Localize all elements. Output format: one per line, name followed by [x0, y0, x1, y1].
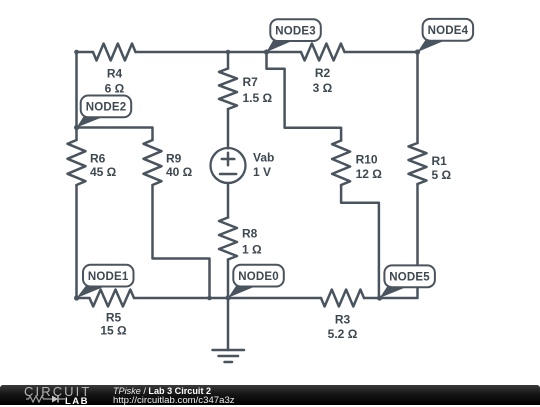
- resistor R2: [301, 44, 345, 96]
- resistor R4: [93, 44, 136, 96]
- wire R9 bottom jog: [153, 185, 210, 298]
- svg-text:NODE2: NODE2: [86, 102, 127, 114]
- svg-text:R2: R2: [315, 66, 331, 80]
- svg-text:1 V: 1 V: [253, 165, 271, 179]
- wire top rail right: [345, 51, 418, 54]
- resistor R8: [219, 218, 262, 260]
- wire bottom rail right: [364, 297, 380, 300]
- svg-text:NODE4: NODE4: [428, 25, 469, 37]
- svg-text:Vab: Vab: [253, 151, 274, 165]
- node junction R9 tap bottom: [207, 296, 212, 301]
- wire R8 to NODE0: [227, 260, 230, 299]
- svg-text:NODE3: NODE3: [275, 25, 316, 37]
- resistor R5: [90, 290, 135, 338]
- svg-text:R6: R6: [90, 152, 106, 166]
- wire Vab to R8: [227, 183, 230, 218]
- footer title text: [113, 386, 211, 396]
- logo resistor-diode glyph: [25, 385, 95, 405]
- wire left rail upper: [75, 52, 78, 140]
- svg-text:5.2 Ω: 5.2 Ω: [328, 327, 358, 341]
- svg-text:3 Ω: 3 Ω: [313, 81, 333, 95]
- wire right rail upper: [416, 52, 419, 143]
- svg-text:R9: R9: [166, 152, 182, 166]
- node label NODE2: [74, 96, 131, 131]
- wire bottom rail middle: [134, 297, 321, 300]
- wire R7 to Vab: [227, 109, 230, 148]
- resistor R1: [409, 143, 452, 184]
- svg-text:5 Ω: 5 Ω: [432, 168, 452, 182]
- svg-text:R3: R3: [335, 313, 351, 327]
- voltage source V1 Vab: [211, 148, 275, 183]
- wire NODE2 to R9: [77, 128, 153, 141]
- wire left rail lower: [75, 185, 78, 298]
- svg-text:R1: R1: [432, 154, 448, 168]
- svg-text:NODE5: NODE5: [389, 272, 430, 284]
- svg-text:R7: R7: [243, 75, 259, 89]
- node label NODE5: [377, 265, 435, 300]
- svg-text:45 Ω: 45 Ω: [90, 165, 117, 179]
- wire R7 branch top lead: [227, 52, 230, 69]
- svg-text:12 Ω: 12 Ω: [356, 167, 383, 181]
- svg-text:1.5 Ω: 1.5 Ω: [243, 91, 273, 105]
- svg-text:40 Ω: 40 Ω: [166, 165, 193, 179]
- node label NODE1: [74, 265, 134, 301]
- wire bottom rail left lead: [77, 297, 90, 300]
- resistor R10: [332, 141, 382, 186]
- node junction top-left corner: [74, 50, 79, 55]
- svg-text:R5: R5: [106, 311, 122, 325]
- svg-text:15 Ω: 15 Ω: [100, 324, 127, 338]
- resistor R6: [68, 140, 117, 185]
- wire top rail left lead: [77, 51, 94, 54]
- svg-text:6 Ω: 6 Ω: [105, 82, 125, 96]
- svg-text:R10: R10: [356, 153, 378, 167]
- svg-text:R8: R8: [242, 227, 258, 241]
- wire top rail middle: [136, 51, 302, 54]
- wire NODE0 to ground: [227, 298, 230, 350]
- node label NODE4: [415, 19, 473, 55]
- wire NODE3 jog to R10: [267, 52, 342, 141]
- resistor R3: [321, 290, 364, 341]
- resistor R7: [219, 69, 273, 110]
- node label NODE0: [226, 265, 284, 301]
- svg-text:NODE0: NODE0: [238, 271, 279, 283]
- wire right rail lower jog: [380, 184, 418, 298]
- resistor R9: [144, 140, 193, 185]
- footer url: [113, 395, 235, 406]
- CircuitLab logo: [24, 384, 91, 399]
- svg-text:R4: R4: [107, 67, 123, 81]
- footer bar: [0, 385, 540, 405]
- wire R10 bottom jog to NODE5: [341, 185, 379, 298]
- svg-text:1 Ω: 1 Ω: [242, 243, 262, 257]
- svg-text:NODE1: NODE1: [88, 271, 129, 283]
- node junction R7 tap: [226, 50, 231, 55]
- ground: [213, 350, 245, 362]
- node label NODE3: [264, 19, 321, 54]
